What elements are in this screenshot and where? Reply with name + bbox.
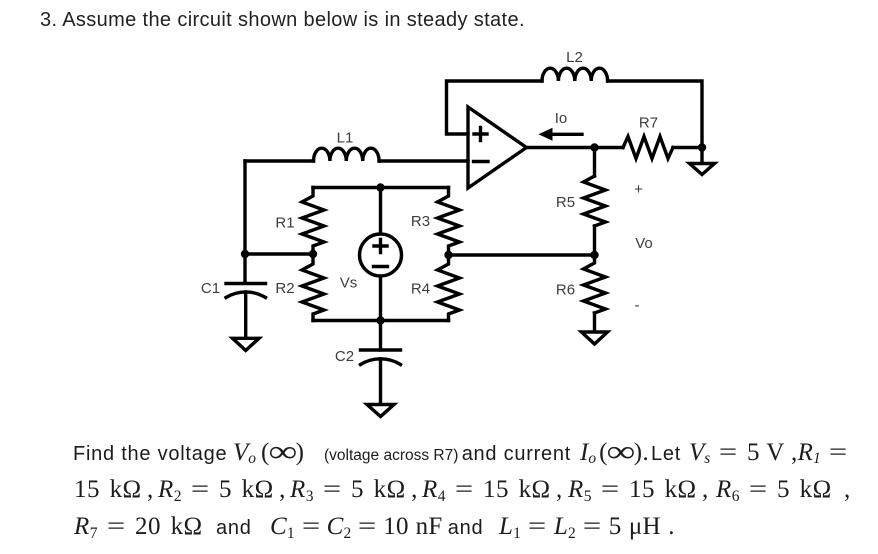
svg-text:L1: L1 [337,130,354,147]
Vs minus marking [374,265,388,268]
node: bottom center [376,316,384,324]
inductor L1 [314,148,380,161]
ground (below C2) [367,405,394,417]
inductor L2 [542,68,608,81]
wire: Vs to bottom node [379,277,382,321]
problem statement text [73,439,847,467]
voltage source Vs [360,234,402,276]
wire: right node to ground [700,148,703,164]
wire: R5 bottom lead [593,226,596,255]
op-amp minus input marking [474,160,489,163]
svg-text:R6: R6 [556,282,575,299]
resistor R7 [623,137,673,159]
wire: L2 to right node [608,81,702,148]
svg-text:R2: R2 [275,280,294,297]
capacitor C1 bottom plate [226,292,266,298]
wire: mid horizontal R3/R4 node to R5/R6 node [449,253,595,256]
resistor R2 [302,254,324,321]
svg-text:L2: L2 [566,49,583,66]
wire: inner box top [313,186,449,189]
wire: C1 to ground [244,292,247,338]
node: left rail / C1 junction [241,250,249,258]
wire: C2 to ground [379,359,382,405]
svg-text:C2: C2 [335,348,354,365]
resistor R1 [302,188,324,255]
node: top center [376,183,384,191]
wire: R5 top lead [593,148,596,177]
wire: R7 to right node [673,146,702,149]
Vs plus marking [374,240,387,253]
node: R3/R4 junction [444,251,452,259]
wire: left rail vertical [243,161,246,283]
node: R1/R2 junction [309,250,317,258]
resistor R3 [438,188,460,256]
wire: inner box bottom [313,319,449,322]
svg-text:Vs: Vs [340,275,358,292]
node: output node [590,143,598,151]
svg-text:R7: R7 [639,115,658,132]
wire: L1 to op-amp inverting input [379,159,468,162]
resistor R5 [584,176,606,226]
svg-text:R5: R5 [556,194,575,211]
wire: top node to Vs [379,188,382,234]
resistor R4 [438,255,460,321]
svg-text:R1: R1 [275,215,294,232]
current arrow Io [551,133,582,136]
ground (below C1) [233,338,260,350]
ground (below R6) [582,332,608,344]
wire: top-left horizontal to L1 [245,159,314,162]
wire: bottom node to C2 [379,321,382,351]
svg-text:+: + [634,181,643,198]
svg-text:-: - [635,297,640,314]
wire: left rail to R1/R2 junction [245,252,313,255]
resistor R6 [584,255,606,313]
op-amp U1 [468,107,527,188]
capacitor C1 top plate [226,282,266,285]
node: right node [698,143,706,151]
svg-text:R4: R4 [411,281,430,298]
svg-text:Vo: Vo [635,235,653,252]
op-amp plus input marking [474,128,487,141]
title [40,9,525,32]
capacitor C2 top plate [361,348,401,351]
wire: R6 to ground [593,313,596,332]
ground (right of R7) [690,164,715,175]
svg-text:Io: Io [555,110,568,127]
wire: output node to R7 [595,146,624,149]
node: R5/R6 junction [590,251,598,259]
current arrow Io head [539,128,553,141]
wire: op-amp non-inverting input up to top loop [447,81,543,134]
capacitor C2 bottom plate [361,359,401,365]
svg-text:R3: R3 [411,213,430,230]
wire: op-amp output [527,146,595,149]
svg-text:C1: C1 [201,280,220,297]
